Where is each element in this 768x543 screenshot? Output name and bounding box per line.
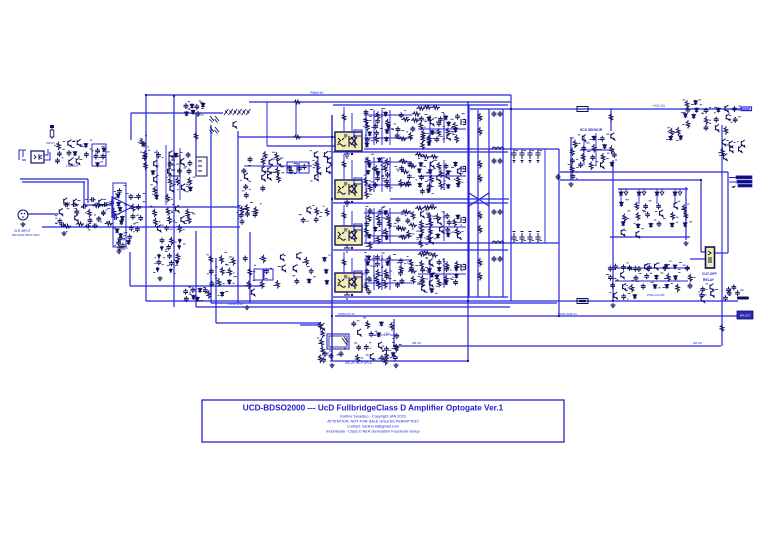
resistor R106 [430,155,439,159]
diode D86 [636,223,640,228]
wire [343,107,345,132]
capacitor C122 [386,256,391,262]
capacitor C125 [367,276,372,282]
transistor Q62 [715,124,719,131]
resistor R172 [705,116,709,125]
capacitor C134 [420,267,425,273]
resistor R61 [364,117,368,126]
diode D22 [324,269,328,274]
resistor R11 [131,204,135,213]
capacitor C195 [323,351,328,357]
capacitor C199 [384,346,389,352]
resistor R154 [437,279,441,288]
capacitor C173 [641,284,646,290]
resistor R95 [399,179,403,188]
capacitor C72 [209,269,214,275]
wire [638,195,640,204]
capacitor C162 [656,203,661,209]
capacitor C50 [184,103,189,109]
diode D13 [174,153,178,158]
diode D98 [377,332,381,337]
capacitor C43 [187,168,192,174]
wire [295,102,297,137]
capacitor C66 [301,217,306,223]
transistor Q26 [268,173,272,180]
diode D87 [649,223,653,228]
capacitor C12 [74,209,79,215]
diode D1 [84,143,88,148]
wire [173,96,175,307]
wire [335,315,738,317]
transistor Q4 [76,158,80,165]
resistor R107 [342,160,346,169]
resistor R167 [601,153,605,162]
wire [389,255,391,290]
diode D41 [427,141,431,146]
resistor R59 [207,290,211,299]
capacitor C54 [242,168,247,174]
wire [470,108,750,110]
wire [211,302,557,304]
transistor Q12 [181,158,185,165]
capacitor C61 [289,168,294,174]
wire [502,109,504,297]
wire [727,172,729,253]
capacitor C30 [136,204,141,210]
capacitor C36 [116,240,121,246]
resistor R25 [176,253,180,262]
resistor R181 [671,212,675,221]
wire [216,322,321,324]
wire [244,165,312,167]
capacitor C123 [375,261,380,267]
resistor R91 [365,190,369,199]
capacitor C94 [385,172,390,178]
transistor Q64 [729,141,733,148]
capacitor C29 [136,194,141,200]
resistor R136 [428,205,437,209]
diode D11 [119,233,123,238]
capacitor C77 [184,296,189,302]
resistor R188 [319,322,323,331]
capacitor C164 [657,221,662,227]
wire [560,171,728,173]
capacitor C116 [445,213,450,219]
transistor Q69 [674,202,678,209]
diode D85 [621,221,625,226]
resistor R184 [689,274,693,283]
wire [620,195,622,204]
resistor R146 [408,269,417,273]
diode D36 [427,116,431,121]
capacitor C130 [398,270,403,276]
capacitor C25 [117,188,122,194]
wire [443,258,445,288]
wire [418,226,466,228]
capacitor C82 [365,137,370,143]
transistor Q27 [314,151,318,158]
wire [674,195,676,204]
resistor R152 [445,275,449,284]
diode D23 [307,278,311,283]
capacitor C7 [101,154,106,160]
resistor R48 [305,257,309,266]
wire [351,211,353,226]
resistor R17 [153,209,157,218]
capacitor C85 [410,126,415,132]
resistor R44 [254,206,258,215]
capacitor C32 [138,215,143,221]
capacitor C110 [378,209,383,215]
capacitor C89 [455,114,460,120]
diode D42 [378,157,382,162]
capacitor C69 [264,268,269,274]
wire [612,160,614,301]
resistor R76 [427,135,431,144]
capacitor C65 [240,219,245,225]
resistor R186 [676,284,680,293]
wire [389,110,391,145]
capacitor C155 [686,107,691,113]
junction [467,360,469,362]
ground [20,222,25,227]
diode D88 [670,222,674,227]
transistor Q15 [170,185,174,192]
resistor R120 [407,230,411,239]
wire [343,154,345,180]
svg-text:SPK OUT: SPK OUT [740,315,751,318]
capacitor C178 [637,266,642,272]
diode D61 [436,233,440,238]
resistor R46 [325,208,329,217]
wire [131,112,223,114]
wire [618,188,688,190]
resistor R10 [105,222,114,226]
capacitor C145 [527,232,532,244]
wire [610,109,612,131]
capacitor C163 [645,212,650,218]
capacitor C106 [420,188,425,194]
resistor R118 [409,223,418,227]
resistor R198 [384,357,388,366]
transistor Q16 [181,184,185,191]
capacitor C193 [380,355,385,361]
diode D81 [717,107,721,112]
wire [488,109,490,297]
wire [266,102,268,146]
transistor Q5 [64,198,67,205]
capacitor C167 [633,266,638,272]
resistor R37 [263,151,267,160]
capacitor C80 [373,124,378,130]
capacitor C16 [96,216,101,222]
transistor Q55 [422,285,426,292]
wire [615,280,688,282]
wire [210,125,212,303]
diode D51 [418,183,422,188]
capacitor C26 [118,236,123,242]
resistor R121 [399,235,408,239]
speaker output terminal [736,176,752,179]
capacitor C160 [704,125,709,131]
resistor R143 [383,280,387,289]
relay RL1 [327,334,349,349]
limiter optocoupler U10 [31,151,44,163]
transistor Q32 [315,174,319,181]
wire [373,157,375,192]
resistor R104 [415,153,424,157]
wire [390,198,509,200]
diode D55 [384,210,388,215]
resistor R84 [342,113,346,122]
wire [690,258,706,260]
wire [331,115,333,361]
resistor R65 [412,112,421,116]
terminal +VCC [741,107,752,111]
transistor Q39 [430,118,434,125]
transistor Q73 [645,263,649,270]
resistor R126 [453,218,457,227]
resistor R94 [401,170,410,174]
diode D19 [185,111,189,116]
inductor L1 [492,147,504,149]
capacitor C42 [177,168,182,174]
resistor R39 [276,167,280,176]
resistor R14 [188,177,192,186]
wire [165,145,167,205]
capacitor C176 [613,264,618,270]
resistor R149 [445,262,449,271]
resistor R20 [154,218,158,227]
wire [394,345,721,347]
transistor Q57 [582,135,586,142]
transistor Q61 [726,114,730,121]
wire [418,273,466,275]
resistor R171 [686,120,690,129]
diode D90 [665,264,669,269]
XLR connector J1 [18,210,28,220]
ground [329,363,334,368]
resistor R159 [429,253,438,257]
svg-text:XLR INPUT: XLR INPUT [14,229,31,233]
wire [130,285,262,287]
resistor R140 [375,276,379,285]
capacitor C71 [294,278,299,284]
resistor R1 [57,142,61,151]
capacitor C11 [109,200,114,206]
transistor Q35 [297,252,301,259]
capacitor C37 [117,245,122,251]
resistor R119 [398,227,407,231]
capacitor C79 [375,118,380,124]
resistor R47 [262,255,266,264]
resistor R92 [399,159,408,163]
resistor R163 [570,165,574,174]
resistor R21 [168,216,172,225]
diode D84 [620,201,624,206]
capacitor C157 [732,106,737,112]
resistor R98 [439,169,443,178]
resistor R179 [623,214,627,223]
resistor R176 [677,127,681,136]
RC pair box 2 [299,162,309,173]
svg-text:PWM GND: PWM GND [228,302,244,306]
isolated supply under opto [344,245,350,252]
resistor R79 [478,127,482,136]
resistor R55 [232,257,236,266]
resistor R49 [248,268,252,277]
capacitor C137 [492,256,497,262]
resistor R145 [399,265,403,274]
resistor R70 [419,122,423,131]
diode D18 [201,103,205,108]
capacitor C159 [733,117,738,123]
capacitor C182 [699,292,704,298]
capacitor C189 [369,331,374,337]
wire [317,156,319,178]
wire [156,150,158,200]
wire [22,181,85,183]
resistor R2 [140,138,144,147]
diode D96 [633,294,637,299]
diode D7 [118,207,122,212]
wire [333,104,508,106]
resistor R89 [364,177,368,186]
transistor Q66 [730,146,734,153]
resistor R63 [366,122,370,130]
capacitor C133 [437,259,442,265]
resistor R77 [455,135,459,144]
rectifier bridge B1 [92,144,106,166]
resistor R183 [667,273,671,282]
capacitor C183 [726,287,731,293]
diode D57 [367,234,371,239]
resistor R71 [453,122,457,131]
diode D60 [419,234,423,239]
capacitor C115 [396,225,401,231]
wire [145,95,147,301]
transistor Q13 [168,168,172,175]
capacitor C171 [644,273,649,279]
resistor R185 [630,284,634,293]
resistor R51 [260,280,264,289]
resistor R197 [385,352,389,361]
resistor R87 [375,165,379,174]
diode D28 [192,295,196,300]
svg-text:Indonesian - Class D Next Gene: Indonesian - Class D Next Generation Fac… [326,430,419,434]
diode D94 [653,284,657,289]
capacitor C51 [194,104,199,110]
resistor R150 [455,261,459,270]
resistor R19 [186,209,190,218]
resistor R158 [422,251,431,255]
wire [544,149,546,243]
capacitor C114 [405,218,410,224]
capacitor C62 [239,212,244,218]
zener Z4 [157,254,160,259]
RC pair box 3 [254,269,263,280]
transistor Q65 [741,140,745,147]
capacitor C158 [714,117,719,123]
resistor R125 [429,219,433,228]
optocoupler U4 [335,271,362,292]
resistor R90 [368,184,372,193]
capacitor C97 [373,182,378,188]
wire [429,162,431,192]
capacitor C175 [621,294,626,300]
wire [721,125,723,253]
wire [443,160,445,190]
capacitor C187 [723,295,728,301]
capacitor C73 [210,281,215,287]
wire [389,157,391,192]
junction [467,300,469,302]
resistor R34 [210,127,215,134]
wire [85,204,112,206]
wire [364,161,412,163]
transistor Q1 [68,140,72,147]
capacitor C14 [58,218,63,224]
connector P2 [196,157,207,176]
capacitor C172 [610,283,615,289]
transistor Q90 [233,121,237,128]
resistor R73 [437,128,441,137]
transistor Q28 [325,151,329,158]
input level pot VR1 [50,128,54,139]
resistor R6 [112,208,116,217]
wire [351,160,353,180]
fuse F1 [577,107,588,112]
capacitor C63 [245,211,250,217]
transistor Q95 [321,323,325,330]
resistor R164 [592,144,596,153]
ground [116,249,121,254]
resistor R100 [457,176,461,185]
diode D29 [196,297,200,302]
capacitor C35 [127,234,132,240]
wire [418,128,466,130]
wire [129,252,131,286]
isolated supply under opto [344,199,350,206]
resistor R60 [376,111,380,120]
diode D27 [198,288,202,293]
resistor R147 [411,276,415,285]
transistor Q81 [358,329,362,336]
capacitor C57 [244,192,249,198]
capacitor C10 [90,197,96,202]
resistor R41 [315,161,319,170]
wire [381,208,383,243]
wire [467,101,469,361]
svg-text:BALANCE INPUT ONLY: BALANCE INPUT ONLY [12,233,40,237]
optocoupler U3 [335,224,362,245]
capacitor C59 [297,166,302,172]
resistor R130 [427,234,431,243]
wire [610,236,690,238]
diode D91 [673,264,677,269]
diode D3 [102,147,106,152]
capacitor C19 [64,202,70,207]
resistor R29 [237,109,241,115]
resistor R23 [178,224,182,233]
diode D67 [438,267,442,272]
capacitor C75 [191,287,196,293]
wire [373,208,375,243]
wire [381,255,383,290]
wire [560,179,701,181]
capacitor C142 [535,149,540,162]
capacitor C38 [156,152,161,158]
